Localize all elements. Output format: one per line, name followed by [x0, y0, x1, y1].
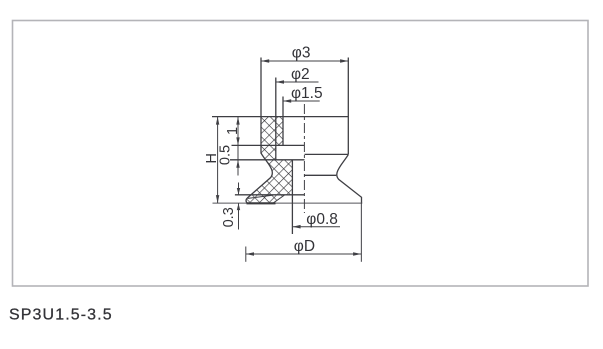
- frame border: [13, 21, 589, 287]
- svg-text:SP3U1.5-3.5: SP3U1.5-3.5: [9, 307, 113, 324]
- dim phi1.5: [283, 85, 323, 103]
- svg-text:1: 1: [225, 127, 241, 135]
- phi0.8 bore edge + ext: [291, 160, 293, 234]
- svg-text:φ3: φ3: [292, 45, 311, 62]
- flange bottom / step line: [232, 144, 305, 146]
- dim phi0.8: [292, 211, 340, 229]
- centerline: [303, 104, 305, 213]
- svg-text:φ1.5: φ1.5: [291, 85, 323, 102]
- bottom line full width: [213, 202, 363, 204]
- svg-text:φ2: φ2: [291, 66, 310, 83]
- rim step slant: [273, 195, 285, 203]
- left skirt outer profile: [246, 153, 272, 204]
- right waist tangent line: [305, 174, 337, 176]
- svg-text:φD: φD: [294, 238, 315, 255]
- dim H: [204, 117, 220, 204]
- groove bottom line: [230, 159, 305, 161]
- svg-text:0.3: 0.3: [221, 207, 237, 227]
- recess flat line: [235, 194, 305, 196]
- rim bottom thick: [247, 202, 276, 204]
- dim phi2: [276, 66, 319, 84]
- dim 0.3: [221, 183, 240, 230]
- right outer edge + phi3 ext: [347, 58, 349, 155]
- section hatch left half: [246, 117, 292, 204]
- dim phiD: [246, 203, 362, 262]
- dim phi3: [261, 45, 348, 63]
- phi2 groove edge + ext: [275, 78, 277, 160]
- phi1.5 bore edge + ext: [282, 97, 284, 146]
- left outer edge + phi3 ext: [260, 58, 262, 154]
- right skirt profile: [337, 155, 362, 203]
- right collar bottom face: [305, 153, 349, 155]
- svg-text:φ0.8: φ0.8: [306, 211, 338, 228]
- dim 1 / 0.5: [218, 117, 242, 176]
- svg-text:0.5: 0.5: [218, 145, 234, 165]
- lip inner shallow line: [248, 195, 273, 198]
- body outline: top face: [212, 116, 348, 118]
